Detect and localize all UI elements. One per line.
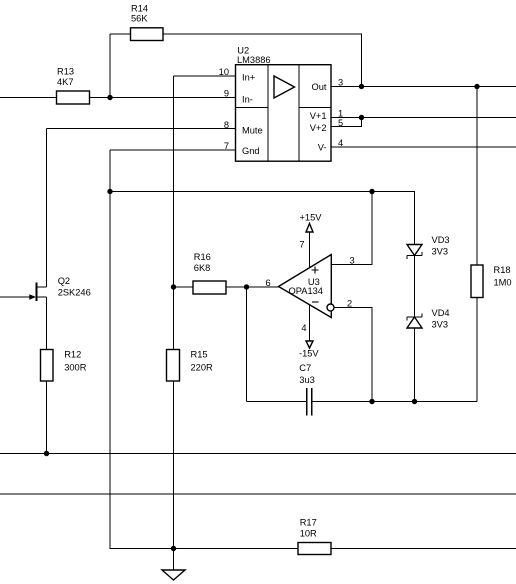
wire zener bottom bbox=[414, 328, 416, 402]
svg-text:300R: 300R bbox=[64, 363, 87, 373]
node Out/R18 bbox=[474, 84, 479, 89]
svg-text:9: 9 bbox=[224, 88, 229, 98]
svg-text:3u3: 3u3 bbox=[299, 375, 315, 385]
wire U2 pin 1 V+1 line bbox=[331, 117, 516, 119]
wire R13 to U2 pin 9 bbox=[90, 97, 236, 99]
resistor R14 bbox=[131, 28, 164, 41]
resistor R15 bbox=[167, 350, 180, 382]
svg-text:10: 10 bbox=[219, 67, 229, 77]
svg-text:6K8: 6K8 bbox=[194, 263, 211, 273]
node top rail / U3 pin3 bbox=[369, 189, 374, 194]
op-amp U2 box bbox=[236, 65, 332, 162]
svg-text:OPA134: OPA134 bbox=[289, 286, 323, 296]
U2 amp triangle bbox=[274, 76, 295, 98]
power arrow +15V bbox=[306, 224, 313, 233]
wire R14 left leg bbox=[109, 34, 111, 98]
wire Gnd branch rail to zeners bbox=[110, 192, 415, 245]
U3 output bubble bbox=[327, 304, 334, 311]
wire In+ net vertical lower bbox=[173, 381, 175, 549]
wire feedback vertical from R16 node bbox=[246, 287, 248, 402]
wire horizontal rail 2 bbox=[0, 493, 516, 495]
svg-text:56K: 56K bbox=[131, 14, 148, 24]
svg-text:Q2: Q2 bbox=[58, 276, 70, 286]
svg-text:R14: R14 bbox=[131, 3, 148, 13]
svg-text:Mute: Mute bbox=[242, 125, 263, 135]
wire R14 left bbox=[110, 33, 131, 35]
U2 inner divider horizontal left bbox=[236, 107, 269, 109]
resistor R18 bbox=[471, 265, 483, 298]
wire R16 right bbox=[226, 286, 247, 288]
node bottom/U3 pin2 bbox=[369, 399, 374, 404]
wire Q2 source down bbox=[46, 297, 48, 350]
wire Gnd net vertical bbox=[110, 150, 298, 549]
node R15 line / R17 line bbox=[171, 546, 176, 551]
wire U3 pin 6 input bbox=[247, 286, 279, 288]
node R16/R15 junction bbox=[171, 284, 176, 289]
svg-text:R12: R12 bbox=[64, 350, 81, 360]
svg-text:220R: 220R bbox=[191, 363, 214, 373]
wire U2 pin 7 Gnd bbox=[110, 149, 236, 151]
wire R12 bottom bbox=[46, 381, 48, 454]
wire input line left of R13 bbox=[0, 97, 57, 99]
svg-text:C7: C7 bbox=[299, 363, 311, 373]
svg-text:2SK246: 2SK246 bbox=[58, 288, 91, 298]
resistor R12 bbox=[41, 350, 54, 382]
U2 inner divider horizontal right bbox=[299, 107, 331, 109]
node R12/rail bbox=[44, 451, 49, 456]
svg-text:In+: In+ bbox=[242, 73, 255, 83]
zener diode VD4 bbox=[407, 314, 422, 329]
wire U2 pin 10 In+ bbox=[174, 75, 236, 77]
svg-text:U2: U2 bbox=[237, 45, 249, 55]
svg-text:3V3: 3V3 bbox=[432, 319, 449, 329]
wire U2 pin 5 V+2 jog bbox=[331, 118, 362, 127]
svg-text:6: 6 bbox=[266, 278, 271, 288]
node R16/feedback junction bbox=[244, 284, 249, 289]
svg-text:3: 3 bbox=[338, 78, 343, 88]
node R13/R14/In- junction bbox=[107, 95, 112, 100]
wire R17 right bbox=[331, 548, 516, 550]
svg-text:V-: V- bbox=[318, 142, 327, 152]
svg-text:3V3: 3V3 bbox=[432, 246, 449, 256]
svg-text:R16: R16 bbox=[194, 252, 211, 262]
svg-text:LM3886: LM3886 bbox=[237, 55, 271, 65]
wire ground stub bbox=[173, 549, 175, 571]
ground bbox=[162, 570, 185, 580]
wire between zeners bbox=[414, 256, 416, 318]
wire U2 pin 3 Out line bbox=[331, 86, 516, 88]
wire Q2 gate line bbox=[0, 296, 30, 298]
svg-text:7: 7 bbox=[224, 141, 229, 151]
U3 minus mark bbox=[312, 301, 319, 303]
svg-text:R17: R17 bbox=[300, 518, 317, 528]
wire R14 right to feedback corner bbox=[163, 34, 362, 87]
wire Q2 drain to Mute bbox=[46, 129, 48, 287]
svg-text:2: 2 bbox=[347, 299, 352, 309]
wire U3 pin 7 power bbox=[309, 232, 311, 268]
svg-text:In-: In- bbox=[242, 95, 253, 105]
svg-text:4: 4 bbox=[338, 138, 343, 148]
node Out/R14 feedback bbox=[359, 84, 364, 89]
U2 inner divider left bbox=[267, 65, 269, 162]
U3 plus mark bbox=[312, 267, 319, 274]
svg-text:R15: R15 bbox=[191, 350, 208, 360]
wire U2 pin 4 V- line bbox=[331, 146, 516, 148]
wire R18 top bbox=[476, 87, 478, 266]
power arrow -15V bbox=[306, 341, 313, 348]
svg-text:1M0: 1M0 bbox=[494, 278, 512, 288]
wire C7 bottom line right bbox=[312, 401, 477, 403]
wire R16 left bbox=[174, 286, 194, 288]
svg-text:8: 8 bbox=[224, 120, 229, 130]
svg-text:+15V: +15V bbox=[300, 213, 323, 223]
node Gnd branch bbox=[107, 189, 112, 194]
svg-text:4: 4 bbox=[301, 323, 306, 333]
svg-text:R13: R13 bbox=[57, 66, 74, 76]
wire horizontal rail 1 bbox=[0, 453, 516, 455]
wire U3 pin 3 riser bbox=[332, 192, 373, 265]
resistor R17 bbox=[298, 543, 331, 555]
wire U3 pin 2 to feedback bbox=[334, 308, 372, 402]
node bottom/zener bbox=[412, 399, 417, 404]
wire R18 bottom bbox=[476, 298, 478, 402]
svg-text:V+1: V+1 bbox=[310, 111, 327, 121]
svg-text:V+2: V+2 bbox=[310, 123, 327, 133]
svg-text:-15V: -15V bbox=[299, 349, 319, 359]
svg-text:3: 3 bbox=[350, 256, 355, 266]
transistor Q2 bbox=[29, 283, 46, 302]
zener diode VD3 bbox=[407, 245, 422, 260]
op-amp U3 triangle bbox=[279, 255, 332, 318]
svg-text:10R: 10R bbox=[300, 529, 317, 539]
resistor R16 bbox=[193, 281, 226, 294]
svg-text:R18: R18 bbox=[494, 265, 511, 275]
wire In+ net vertical bbox=[173, 76, 175, 350]
svg-text:4K7: 4K7 bbox=[57, 77, 74, 87]
svg-text:Out: Out bbox=[312, 82, 327, 92]
wire U2 pin 8 Mute bbox=[47, 128, 236, 130]
svg-text:Gnd: Gnd bbox=[242, 146, 260, 156]
svg-text:VD3: VD3 bbox=[432, 235, 450, 245]
U2 inner divider right bbox=[298, 65, 300, 162]
wire U3 pin 4 power bbox=[309, 306, 311, 342]
wire C7 bottom line left bbox=[247, 401, 307, 403]
capacitor C7 bbox=[307, 388, 312, 416]
svg-text:7: 7 bbox=[299, 240, 304, 250]
svg-text:VD4: VD4 bbox=[432, 308, 450, 318]
svg-text:5: 5 bbox=[338, 118, 343, 128]
node V+1/V+2 join bbox=[359, 115, 364, 120]
resistor R13 bbox=[57, 91, 90, 104]
